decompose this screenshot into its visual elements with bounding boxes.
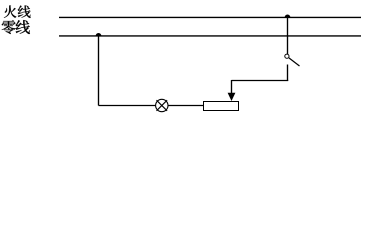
lamp L1: X diagonal 1 bbox=[157, 100, 168, 111]
node A: junction dome on neutral line bbox=[96, 33, 102, 36]
wire: left vertical drop from neutral node A down to lamp branch bbox=[98, 36, 100, 106]
lamp L1: circle bbox=[156, 99, 168, 111]
wire: vertical below switch down to horizontal bbox=[287, 65, 289, 82]
wire: neutral line (零线) horizontal bbox=[59, 35, 361, 37]
wire: rheostat slider vertical up bbox=[231, 80, 233, 94]
wire: live line (火线) horizontal bbox=[59, 16, 361, 18]
wire: vertical from live-line node B down to switch bbox=[287, 17, 289, 54]
lamp L1: X diagonal 2 bbox=[157, 100, 168, 111]
wire: lamp to rheostat left terminal bbox=[168, 105, 204, 107]
wire: bottom horizontal from left drop to lamp bbox=[99, 105, 156, 107]
label 零 (neutral wire) char 1 bbox=[2, 20, 16, 34]
wire: horizontal from slider to switch branch bbox=[232, 80, 289, 82]
label 线 (live wire) char 2 bbox=[18, 5, 31, 17]
rheostat R1: slider arrowhead bbox=[228, 93, 236, 101]
label 火 (live wire) char 1 bbox=[4, 5, 17, 17]
node B: junction dome on live line bbox=[285, 14, 291, 17]
label 线 (neutral wire) char 2 bbox=[16, 20, 30, 34]
rheostat R1: resistor body rectangle bbox=[204, 102, 239, 111]
switch S1: blade (open, slanting down-right) bbox=[289, 58, 300, 66]
switch S1: open-contact small circle bbox=[285, 54, 289, 58]
